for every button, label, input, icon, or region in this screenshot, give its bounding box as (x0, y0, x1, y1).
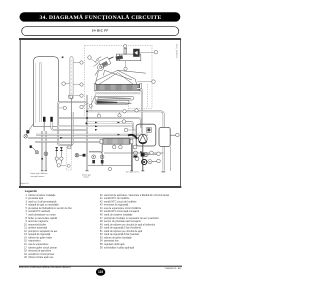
bottom manifold line (104, 152, 164, 154)
svg-text:Ieşire apă caldă gaz: Ieşire apă caldă gaz (31, 172, 48, 175)
dashed casing boundary (85, 45, 152, 116)
gauge callout (157, 159, 161, 163)
callout column: stick mid (73, 83, 83, 86)
svg-text:119: 119 (98, 270, 103, 274)
flow arrows (60, 122, 120, 139)
air duct (116, 48, 140, 61)
svg-text:schimbător în plăci apă-apă: schimbător în plăci apă-apă (104, 246, 135, 249)
callout: dashed mid (123, 110, 126, 113)
callout: dashed right (135, 109, 138, 112)
bottom connection labels (21, 171, 141, 185)
junction dot 2 (86, 110, 88, 112)
callout: tank (59, 106, 67, 109)
title bar (20, 12, 181, 21)
callout: under duct (124, 61, 127, 71)
burner flame scallops (95, 92, 140, 94)
callout: injector dashed left (97, 112, 100, 117)
tank fitting left (black) (43, 117, 46, 122)
dhw valve right (100, 155, 104, 163)
expansion vessel (159, 127, 170, 146)
gas inlet valve symbol (75, 153, 83, 157)
plate hx right pipe (131, 144, 133, 171)
tank left fitting pipe (43, 122, 45, 131)
svg-text:Intr. apă Tur înc.: Intr. apă Tur înc. (126, 171, 140, 174)
model pill (22, 27, 179, 36)
fitting valve A (55, 147, 58, 163)
plate hx left pipe (89, 152, 102, 166)
plate hx left pipe upper (101, 144, 103, 152)
page number badge (96, 268, 105, 276)
coil loop pipe (58, 102, 87, 145)
pump group housing (136, 124, 156, 146)
pipe run y134.7 (36, 134, 148, 136)
dhw valve left (92, 155, 96, 163)
tank coil tube (40, 62, 42, 122)
stick inner dashes (71, 60, 73, 95)
pump circle (138, 134, 147, 143)
legend left column (24, 194, 73, 259)
svg-text:7104581.02 - RO: 7104581.02 - RO (164, 268, 181, 270)
drain valve left top (24, 124, 34, 139)
stick pipe down (71, 99, 73, 146)
main heat exchanger fins (94, 84, 141, 91)
pipe run y141.8 (35, 141, 100, 143)
diagram frame (19, 38, 181, 187)
twin dhw pipes down (42, 131, 46, 171)
pump bottom pipe (142, 144, 144, 171)
plate hx callout (112, 144, 116, 149)
junction dot gas (85, 122, 87, 124)
burner ramp upper (95, 96, 134, 100)
vessel drain line (170, 146, 172, 171)
storage tank (34, 57, 59, 127)
legend right column (100, 194, 169, 249)
callout: duct top (124, 45, 127, 55)
main heat exchanger hood (95, 70, 146, 84)
footer rule (19, 265, 182, 267)
svg-text:24 BIC FF: 24 BIC FF (92, 29, 109, 33)
gas manifold with injectors (97, 101, 132, 104)
bypass inner valve (67, 164, 70, 167)
gas valve body black (83, 154, 86, 157)
bottom line left (88, 165, 132, 167)
secondary plate exchanger (100, 139, 133, 145)
tank inner shading line (35, 63, 37, 123)
fitting valve B (60, 147, 63, 163)
drain cross fitting (141, 152, 145, 156)
junction dot pump (140, 151, 142, 153)
callout column: stick top (73, 61, 83, 64)
svg-text:INSTRUCŢIUNI DESTINATE INSTALA: INSTRUCŢIUNI DESTINATE INSTALATORULUI (19, 266, 71, 269)
air vent symbol (144, 153, 157, 157)
bottom callout left (108, 167, 111, 170)
callout: anode (62, 82, 70, 86)
bypass inner fitting (68, 146, 71, 149)
left edge fitting black (30, 145, 32, 148)
svg-text:menajeră metan: menajeră metan (31, 175, 45, 178)
junction dot dhw (41, 158, 43, 160)
bypass dashed box (66, 147, 71, 170)
top dot fitting (62, 56, 64, 58)
callout: valve mid (122, 120, 133, 124)
ignition electrode (89, 95, 95, 108)
callout: exchanger (138, 80, 156, 84)
tank right fitting pipe bend (52, 122, 87, 130)
junction dot run118 (86, 117, 88, 119)
svg-text:Figura 14: Figura 14 (21, 182, 29, 185)
fan assembly (94, 57, 133, 82)
flue elbow dark (116, 55, 124, 60)
pipe run y137.8 (28, 137, 140, 139)
left valve symbol (32, 147, 39, 154)
callout: valve mid 2 (124, 128, 136, 132)
callout: venturi (140, 50, 158, 54)
pipe end caps (41, 171, 165, 172)
tank fitting right (black) (50, 117, 53, 122)
svg-text:metan: metan (84, 176, 89, 179)
svg-text:34. DIAGRAMĂ FUNCŢIONALĂ CIRCU: 34. DIAGRAMĂ FUNCŢIONALĂ CIRCUITE (40, 13, 162, 21)
callout bottom left (57, 164, 66, 167)
svg-text:0207_1302/CG: 0207_1302/CG (175, 44, 177, 58)
pipe run y126.3 (59, 126, 134, 139)
central gas pipe (86, 95, 88, 171)
callout column: loop (74, 94, 83, 97)
callout: burner left (80, 103, 89, 109)
pump motor box (146, 127, 151, 132)
pipe run y118 to pump (59, 118, 141, 128)
svg-text:Legendă: Legendă (25, 189, 37, 193)
right return pipe (87, 111, 164, 170)
pipe run y122.5 (87, 123, 133, 131)
vessel stub (170, 134, 175, 136)
gauge symbol light (148, 160, 157, 164)
anode stick (70, 57, 73, 99)
vessel callout (176, 133, 180, 137)
gauge symbol dark (142, 159, 147, 164)
three way group right (133, 144, 139, 171)
exchanger right pipe (137, 88, 142, 133)
callout: fan (88, 56, 98, 64)
pump inlet dark bend (128, 135, 137, 139)
burner ramp lower (95, 100, 129, 104)
stick pipe fitting (69, 95, 73, 98)
svg-text:robinet intrare apă rece: robinet intrare apă rece (28, 256, 54, 259)
plate hx callout b (119, 144, 123, 149)
venturi dark (133, 49, 139, 57)
valve on dhw pipe (44, 152, 48, 156)
callout: pump right (150, 151, 154, 155)
air vent callout (157, 152, 161, 156)
callout: injector dashed right (118, 112, 121, 117)
